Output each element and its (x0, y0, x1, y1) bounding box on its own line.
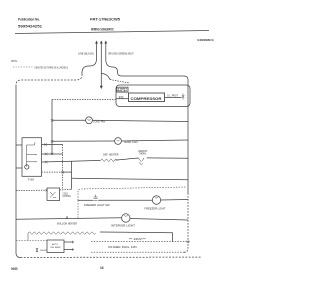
svg-text:FREEZER LIGHT SW.: FREEZER LIGHT SW. (84, 203, 110, 207)
svg-text:NOTE:: NOTE: (11, 59, 18, 63)
svg-text:RELAY: RELAY (117, 90, 128, 93)
svg-text:240V: 240V (134, 237, 143, 241)
svg-text:GROUND (GREEN) NEUT.: GROUND (GREEN) NEUT. (108, 52, 134, 56)
svg-text:THERM.: THERM. (139, 153, 147, 156)
svg-text:DEF. HEATER: DEF. HEATER (103, 153, 119, 157)
svg-text:FREEZER LIGHT: FREEZER LIGHT (145, 206, 166, 210)
svg-text:EVAP. FAN: EVAP. FAN (125, 140, 138, 144)
svg-text:LINE (BLACK): LINE (BLACK) (78, 52, 94, 56)
svg-text:PTC: PTC (119, 96, 124, 99)
svg-text:16: 16 (100, 266, 104, 270)
svg-text:MULLION HEATER: MULLION HEATER (57, 222, 77, 226)
svg-text:T-60: T-60 (28, 177, 35, 181)
svg-text:COMPRESSOR: COMPRESSOR (131, 97, 162, 101)
svg-text:O.L. PROT: O.L. PROT (167, 96, 179, 98)
svg-text:DENOTES HOT WIRE ON ALL MODELS: DENOTES HOT WIRE ON ALL MODELS (35, 65, 69, 69)
svg-text:ON AMER. BLDG. 240V: ON AMER. BLDG. 240V (108, 246, 137, 249)
svg-text:FRT-17NE3CW5: FRT-17NE3CW5 (90, 18, 120, 22)
svg-text:WIRING SCHEMATIC: WIRING SCHEMATIC (91, 28, 114, 32)
svg-text:Publication No.: Publication No. (18, 18, 40, 22)
svg-text:09/05: 09/05 (11, 267, 18, 271)
svg-text:5995424251: 5995424251 (18, 25, 42, 29)
svg-text:AUTO: AUTO (52, 243, 58, 246)
svg-text:140068C1: 140068C1 (197, 38, 214, 42)
svg-text:ICE MKR: ICE MKR (50, 247, 61, 249)
svg-text:INTERIOR LIGHT: INTERIOR LIGHT (111, 224, 135, 228)
svg-text:COND. FAN: COND. FAN (93, 119, 105, 123)
svg-text:CONTROL: CONTROL (63, 195, 72, 198)
